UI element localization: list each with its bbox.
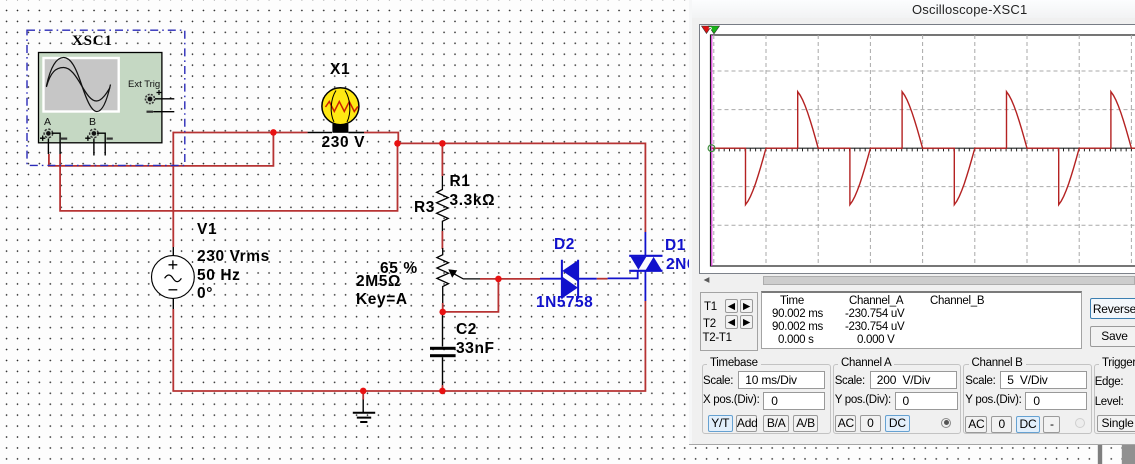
wire top rail V1+ to lamp: [173, 132, 307, 134]
label 3.3kohm: [450, 193, 496, 209]
label Ext Trig: [128, 79, 160, 90]
wire second rail to triac: [398, 143, 646, 232]
potentiometer R3: [437, 248, 480, 305]
wire wiper to diac node: [480, 278, 498, 280]
label X1: [330, 62, 350, 78]
label 0 deg: [197, 286, 213, 302]
oscilloscope instrument XSC1 icon: [39, 53, 162, 143]
scope plot svg: [692, 0, 1135, 444]
label 50 Hz: [197, 268, 241, 284]
label R3: [414, 200, 435, 216]
label B: [89, 116, 96, 128]
plot frame: [711, 35, 1135, 266]
T2 arrow buttons: [725, 315, 739, 329]
capacitor C2: [430, 313, 456, 391]
channel zero marker: [708, 145, 715, 152]
junction node ground: [360, 388, 367, 395]
grid vertical dashed: [714, 35, 1132, 266]
values box: [761, 291, 1082, 349]
scrollbar: [694, 276, 1135, 286]
terminal B: [85, 129, 113, 141]
label C2: [456, 322, 477, 338]
time axis with ticks: [711, 148, 1135, 151]
wire lamp right lead: [349, 132, 365, 134]
label A: [44, 116, 51, 128]
label Key=A: [356, 292, 408, 308]
junction node lamp-left: [270, 129, 277, 136]
Timebase groupbox: [702, 364, 831, 434]
ground: [353, 391, 375, 422]
Trigger groupbox: [1094, 364, 1135, 434]
wire scope A- to lamp right node: [52, 133, 398, 211]
junction node R1 top: [439, 140, 446, 147]
junction node pot bottom: [439, 309, 446, 316]
cursor line: [711, 35, 713, 266]
radio B empty: [1075, 418, 1086, 429]
label D2: [554, 237, 575, 253]
diac D2: [540, 260, 597, 299]
wire lamp to right corner: [364, 133, 398, 144]
oscilloscope window: [692, 0, 1135, 444]
label 230 Vrms: [197, 249, 270, 265]
oscilloscope window frame: [689, 0, 693, 445]
T1 arrow buttons: [725, 299, 739, 313]
terminal A: [40, 129, 67, 141]
cursor readout box: [700, 292, 758, 351]
label XSC1: [72, 33, 113, 49]
wire scope A+ to top node: [48, 133, 273, 166]
wire diac node down-left loop: [443, 279, 499, 312]
junction node wiper: [495, 276, 502, 283]
label 2N6: [666, 257, 705, 273]
Channel B groupbox: [963, 364, 1092, 434]
title bar: [692, 0, 1135, 18]
scope display panel: [699, 24, 1135, 274]
junction node C2 bottom: [439, 388, 446, 395]
svg-text:2: 2: [708, 27, 712, 34]
wire bottom rail: [172, 301, 645, 391]
selection box XSC1: [27, 30, 185, 165]
label 1N5758: [536, 295, 593, 311]
grid horizontal dashed: [711, 71, 1135, 225]
label 2M5ohm: [356, 274, 401, 290]
radio A filled: [941, 418, 951, 428]
cursor flag digit: [708, 27, 712, 34]
wire ext trig stubs: [153, 99, 174, 112]
wire pot bottom to C2 node: [442, 303, 444, 312]
label 65 %: [380, 261, 418, 277]
label 33nF: [456, 341, 495, 357]
wire lamp left lead: [308, 132, 332, 134]
wire to diac: [498, 278, 540, 280]
Reverse button: [1090, 298, 1135, 320]
junction node lamp-right: [394, 140, 401, 147]
scrollbar fragments bottom right: [1098, 444, 1135, 464]
label R1: [450, 174, 471, 190]
cursor flags: [702, 26, 720, 34]
label V1: [197, 222, 217, 238]
resistor R1: [437, 176, 449, 232]
wire diac to triac gate: [597, 278, 608, 280]
label D1: [665, 238, 686, 254]
wire V1 vertical: [172, 132, 174, 391]
lamp X1: [322, 88, 359, 133]
wire R1 to pot: [441, 231, 443, 249]
source V1: [152, 256, 195, 299]
Save button: [1090, 326, 1135, 347]
wire B stubs: [94, 133, 105, 155]
label 230 V: [322, 135, 366, 151]
wire R1 column top: [441, 143, 443, 176]
Channel A groupbox: [833, 364, 962, 434]
waveform channel A: [712, 92, 1135, 205]
terminal Ext Trig: [145, 90, 161, 113]
triac D1: [608, 232, 663, 301]
